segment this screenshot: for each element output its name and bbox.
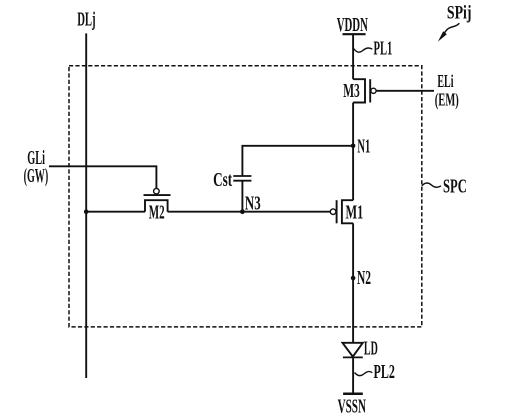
- junction dot DLj x M2 source: [84, 209, 89, 214]
- power terminal VSSN bar: [343, 393, 363, 396]
- wire: M1 drain down through N2 to LD anode: [352, 223, 354, 342]
- wire: M3 gate to ELi: [376, 90, 434, 92]
- diode LD: [343, 343, 363, 358]
- wire: DLj to M2 source: [86, 211, 145, 213]
- svg-text:DLj: DLj: [77, 9, 95, 31]
- svg-text:N1: N1: [357, 136, 370, 158]
- svg-text:ELi: ELi: [437, 71, 453, 91]
- svg-text:VDDN: VDDN: [337, 14, 368, 36]
- svg-text:PL1: PL1: [374, 38, 393, 60]
- svg-text:M2: M2: [149, 201, 165, 223]
- node N2: [351, 276, 356, 281]
- svg-text:(GW): (GW): [24, 165, 49, 187]
- transistor M1: [330, 200, 353, 223]
- wire: VDDN to M3 source: [352, 34, 354, 79]
- svg-text:VSSN: VSSN: [338, 395, 367, 417]
- transistor M2: [144, 188, 171, 211]
- svg-text:LD: LD: [364, 338, 378, 360]
- capacitor Cst: [233, 176, 251, 212]
- svg-text:(EM): (EM): [435, 90, 459, 111]
- wire: N3 to M1 gate: [242, 211, 330, 213]
- svg-text:SPij: SPij: [447, 3, 472, 24]
- wire: DLj data line vertical: [85, 33, 87, 378]
- arrow leader from SPij: [438, 23, 459, 41]
- svg-text:N2: N2: [357, 267, 371, 289]
- wire: LD cathode to VSSN: [352, 357, 354, 393]
- svg-text:SPC: SPC: [443, 176, 467, 198]
- wire: N1 to Cst top plate: [242, 146, 353, 176]
- svg-text:M1: M1: [346, 201, 364, 223]
- squiggle leader for PL1: [354, 48, 373, 52]
- node N3: [240, 209, 245, 214]
- power terminal VDDN bar: [343, 33, 366, 35]
- squiggle leader for PL2: [355, 371, 373, 375]
- svg-text:Cst: Cst: [213, 169, 232, 191]
- squiggle leader for SPC: [422, 183, 441, 187]
- wire: M2 drain to node N3: [168, 211, 243, 213]
- wire: M3 drain to M1 source through node N1: [352, 103, 354, 201]
- transistor M3: [353, 79, 376, 102]
- dashed box SPC boundary: [69, 66, 422, 327]
- svg-text:M3: M3: [343, 80, 360, 102]
- node N1: [351, 144, 356, 149]
- wire: GLi to M2 gate: [49, 166, 156, 188]
- svg-text:PL2: PL2: [374, 361, 395, 383]
